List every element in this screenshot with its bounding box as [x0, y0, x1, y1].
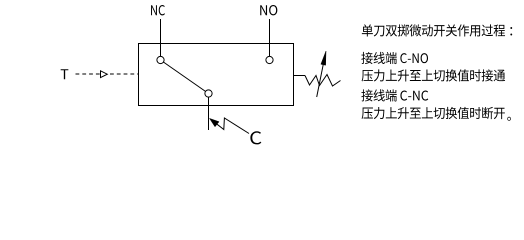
label T [61, 69, 69, 79]
switch arm (movable contact blade) [161, 60, 209, 94]
spring lead stub [294, 75, 306, 77]
label NC [151, 5, 165, 15]
switch body S1 [139, 44, 294, 106]
actuator dashed link from T [76, 73, 101, 75]
label NO [260, 5, 277, 15]
actuator bolt link from C [217, 118, 249, 134]
actuator direction arrow (open triangle) [101, 71, 108, 78]
label C [250, 131, 261, 144]
contact NO [266, 56, 273, 63]
spring (range adjustment spring) [305, 75, 341, 87]
terminal lead NO [269, 19, 271, 57]
note line 3 [362, 69, 506, 81]
common terminal lead [208, 94, 210, 131]
contact C (common pole) [205, 90, 212, 97]
wire dashed link to body [110, 73, 139, 75]
note line 1: heading [362, 24, 512, 36]
spring adjustment arrowhead [321, 51, 326, 65]
note line 2: terminals C-NO [361, 52, 428, 64]
actuator bolt arrowhead [210, 118, 220, 126]
spring adjustment arrow shaft [317, 65, 324, 97]
terminal lead NC [160, 19, 162, 57]
contact NC [157, 56, 164, 63]
note line 4: terminals C-NC [361, 89, 428, 101]
note line 5 [362, 107, 511, 121]
